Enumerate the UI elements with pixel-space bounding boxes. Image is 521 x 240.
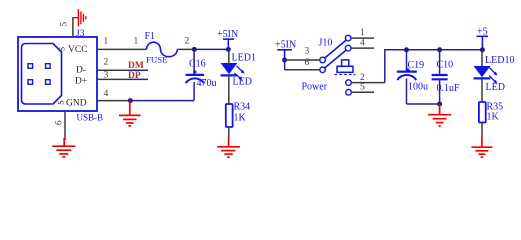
wire R34 to ground (228, 127, 230, 138)
pin 6 shield wire (bottom) (64, 111, 66, 140)
svg-text:C16: C16 (189, 59, 206, 70)
pin 2 wire (D-) (97, 69, 130, 71)
LED10 anode lead (481, 50, 483, 66)
connector contact square 4 (46, 80, 51, 85)
svg-text:1: 1 (134, 37, 139, 47)
LED10 triangle (474, 66, 491, 77)
svg-text:1: 1 (104, 37, 109, 47)
svg-text:100u: 100u (408, 82, 428, 93)
capacitor C19 bottom lead (406, 79, 408, 105)
power +5 (477, 36, 488, 50)
svg-text:LED10: LED10 (485, 55, 514, 66)
earth symbol (top, red) (72, 9, 86, 26)
LED1 arrow 1 (237, 66, 245, 74)
switch pin 1 wire (351, 37, 374, 39)
capacitor C16 top plate (186, 74, 205, 76)
svg-text:J3: J3 (76, 29, 85, 39)
svg-text:FUSE: FUSE (146, 54, 168, 64)
svg-text:5: 5 (59, 22, 69, 27)
connector J3 inner shell (22, 44, 62, 105)
resistor R35 body (479, 102, 486, 123)
wire pin2 up to +5 rail (385, 50, 483, 83)
wire node2 to +5IN node (194, 48, 228, 50)
junction at C10 bottom (437, 102, 442, 107)
svg-text:Power: Power (302, 82, 328, 93)
ground (below pin 4 rail) (119, 101, 141, 126)
ground (below R34) (217, 137, 240, 157)
capacitor C10 plate 1 (432, 74, 448, 76)
switch lever 2 (325, 50, 346, 67)
svg-text:4: 4 (104, 89, 109, 99)
svg-text:+5IN: +5IN (217, 29, 238, 40)
pin 5 shield wire (top) (72, 18, 74, 37)
svg-text:C10: C10 (437, 60, 454, 71)
switch contact circle pin 2 (346, 80, 352, 86)
fuse F1 (147, 42, 178, 56)
LED1 anode lead (228, 49, 230, 63)
LED10 arrow 1 (489, 67, 497, 75)
svg-text:3: 3 (104, 70, 109, 80)
junction at +5IN right (282, 58, 287, 63)
LED1 triangle (221, 63, 238, 74)
capacitor C16 plus sign (193, 70, 197, 74)
svg-text:1K: 1K (234, 113, 247, 124)
svg-text:D-: D- (76, 66, 86, 76)
capacitor C16 curved plate (186, 78, 205, 83)
push button actuator (335, 60, 356, 75)
svg-text:DM: DM (128, 61, 144, 71)
power +5IN (right) (277, 50, 292, 60)
wire down to pin 6 branch (284, 60, 286, 70)
switch lever 1 (325, 40, 346, 58)
LED10 cathode bar (474, 77, 491, 79)
switch contact circle pin 4 (345, 45, 351, 51)
svg-text:1: 1 (360, 28, 365, 38)
connector J3 outer box (18, 37, 97, 111)
svg-text:470u: 470u (197, 78, 217, 89)
junction at +5 (480, 47, 485, 52)
connector contact square 2 (46, 64, 51, 69)
pin 1 wire (VCC) (97, 48, 147, 50)
capacitor C19 plus sign (406, 68, 410, 72)
capacitor C10 bottom lead (439, 79, 441, 104)
svg-text:DP: DP (128, 71, 141, 81)
ground (below C19/C10) (428, 104, 451, 126)
capacitor C16 lead (top) (193, 49, 195, 74)
svg-text:2: 2 (185, 37, 190, 47)
pin 4 wire (GND) (97, 100, 130, 102)
svg-text:6: 6 (54, 120, 64, 125)
capacitor C10 top lead (439, 50, 441, 75)
switch contact circle pin 3 (320, 57, 326, 63)
switch contact circle pin 1 (345, 35, 351, 41)
svg-text:J10: J10 (319, 38, 333, 49)
capacitor C19 top lead (406, 50, 408, 71)
svg-text:6: 6 (305, 58, 310, 68)
switch contact circle pin 6 (320, 67, 326, 73)
gnd rail wire to C16 (130, 100, 194, 102)
svg-text:2: 2 (104, 58, 109, 68)
pin 3 wire (D+) (97, 78, 130, 80)
fuse pin 2 wire to node (177, 48, 194, 50)
svg-text:LED: LED (486, 82, 505, 93)
switch pin 4 wire (351, 47, 374, 49)
wire R35 to ground (481, 123, 483, 138)
LED1 cathode bar (221, 74, 238, 76)
junction node 2 (192, 47, 197, 52)
svg-text:F1: F1 (145, 31, 156, 42)
svg-text:D+: D+ (75, 77, 87, 87)
connector contact square 1 (28, 64, 33, 69)
svg-text:GND: GND (66, 99, 87, 109)
svg-text:1K: 1K (487, 111, 500, 122)
junction at C10 top (437, 47, 442, 52)
LED1 arrow 2 (234, 73, 242, 80)
capacitor C19 curved plate (397, 75, 416, 80)
switch pin 2 wire (351, 82, 385, 84)
svg-text:LED: LED (233, 77, 252, 88)
wire LED1 to R34 (228, 75, 230, 104)
svg-text:+5: +5 (477, 26, 488, 37)
capacitor C10 plate 2 (432, 78, 448, 80)
junction at +5IN/LED1 (226, 47, 231, 52)
svg-text:LED1: LED1 (232, 53, 256, 64)
svg-text:S: S (57, 100, 66, 104)
svg-text:USB-B: USB-B (77, 113, 104, 123)
ground (below R35) (471, 137, 492, 158)
svg-text:VCC: VCC (68, 45, 88, 55)
wire LED10 to R35 (481, 78, 483, 102)
svg-text:5: 5 (360, 83, 365, 93)
wire +5IN to switch pin 3 (285, 59, 320, 61)
ground (USB shield) (52, 138, 75, 157)
svg-text:3: 3 (305, 47, 310, 57)
wire to switch pin 6 (285, 69, 320, 71)
resistor R34 body (226, 104, 233, 127)
svg-text:2: 2 (360, 73, 365, 83)
junction on gnd rail (128, 98, 133, 103)
svg-text:S: S (58, 47, 67, 51)
svg-text:+5IN: +5IN (275, 40, 296, 51)
switch contact circle pin 5 (346, 90, 352, 96)
svg-text:C19: C19 (408, 60, 425, 71)
LED10 arrow 2 (489, 76, 497, 84)
capacitor C19 top plate (397, 70, 417, 72)
capacitor C16 lead (bottom) (193, 82, 195, 101)
svg-text:R34: R34 (234, 102, 251, 113)
svg-text:4: 4 (360, 39, 365, 49)
switch pin 5 wire (351, 91, 374, 93)
connector contact square 3 (28, 80, 33, 85)
svg-text:0.1uF: 0.1uF (437, 83, 461, 94)
power +5IN (left) (223, 39, 234, 49)
junction at C19 top (404, 47, 409, 52)
bottom rail C19 to C10 (407, 103, 440, 105)
